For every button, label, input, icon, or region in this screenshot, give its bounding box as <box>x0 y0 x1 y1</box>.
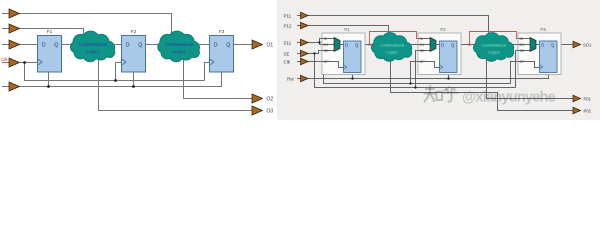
svg-text:SO1: SO1 <box>583 42 592 47</box>
svg-text:D: D <box>42 42 46 48</box>
svg-text:D: D <box>345 43 348 48</box>
svg-text:Q: Q <box>54 42 58 48</box>
svg-text:D: D <box>126 42 130 48</box>
svg-text:Logic1: Logic1 <box>87 49 100 54</box>
svg-text:F3: F3 <box>219 29 225 35</box>
svg-text:O3: O3 <box>267 109 274 115</box>
svg-text:F1: F1 <box>47 29 53 35</box>
svg-text:Q: Q <box>138 42 142 48</box>
svg-text:Combinational: Combinational <box>482 43 506 47</box>
svg-text:SE: SE <box>284 51 290 56</box>
svg-text:Combinational: Combinational <box>79 42 107 47</box>
svg-text:D1: D1 <box>420 43 425 47</box>
svg-text:F2: F2 <box>440 27 446 32</box>
svg-text:S11: S11 <box>284 40 292 45</box>
svg-text:P12: P12 <box>284 23 293 28</box>
svg-text:O2: O2 <box>267 97 274 103</box>
svg-text:Combinational: Combinational <box>165 42 193 47</box>
svg-text:SE: SE <box>520 49 526 53</box>
svg-text:SI: SI <box>420 37 424 41</box>
svg-text:CP: CP <box>420 60 426 64</box>
svg-text:Logic2: Logic2 <box>488 51 499 55</box>
svg-text:CP: CP <box>324 60 330 64</box>
svg-text:P11: P11 <box>284 13 292 18</box>
svg-text:Combinational: Combinational <box>380 43 404 47</box>
svg-text:D: D <box>541 43 544 48</box>
svg-text:Q: Q <box>226 42 230 48</box>
svg-text:@xianyunyehe: @xianyunyehe <box>462 90 556 106</box>
svg-text:SI: SI <box>520 37 524 41</box>
svg-text:D: D <box>214 42 218 48</box>
svg-text:F2: F2 <box>131 29 137 35</box>
svg-text:Clk: Clk <box>284 59 291 64</box>
svg-text:D: D <box>441 43 444 48</box>
svg-text:Logic2: Logic2 <box>173 49 186 54</box>
svg-text:F1: F1 <box>344 27 350 32</box>
svg-text:CP: CP <box>520 60 526 64</box>
svg-text:P01: P01 <box>584 96 592 101</box>
svg-text:D1: D1 <box>324 43 329 47</box>
svg-text:D1: D1 <box>520 43 525 47</box>
svg-text:Clk: Clk <box>1 57 8 62</box>
svg-text:Rst: Rst <box>287 76 294 81</box>
svg-text:SE: SE <box>324 49 330 53</box>
svg-text:P02: P02 <box>584 108 592 113</box>
svg-text:SI: SI <box>324 37 328 41</box>
svg-text:O1: O1 <box>267 43 274 49</box>
svg-text:Logic1: Logic1 <box>386 51 397 55</box>
svg-text:F3: F3 <box>540 27 546 32</box>
svg-text:SE: SE <box>420 49 426 53</box>
